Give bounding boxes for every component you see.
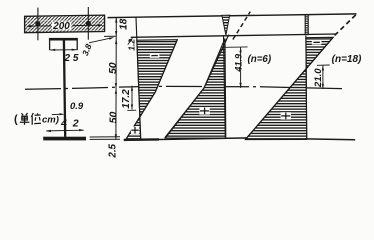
svg-text:41.9: 41.9 (234, 54, 244, 73)
leader 1.2 arrow (128, 39, 132, 45)
dimension 200 lines (28, 25, 51, 27)
dimension 21.0 (317, 64, 330, 66)
diagonal H2 (165, 35, 229, 138)
dimension 17.2 line (131, 86, 133, 110)
second line (131, 34, 335, 37)
tooth 1 lower (hatched) (126, 117, 141, 140)
kanji tan (20, 113, 30, 125)
leader 3.8 arrow (89, 38, 112, 43)
bottom line thick left part (124, 138, 159, 141)
tooth 3 upper (hatched) (306, 37, 333, 69)
svg-text:4 2: 4 2 (60, 117, 80, 129)
tooth 2 (hatched) (166, 39, 226, 139)
vertical V3 (305, 36, 308, 140)
dashed moment line 1 (233, 12, 250, 40)
tooth 3 lower (hatched) (245, 69, 306, 140)
tick under 18 (104, 35, 117, 37)
rivet 1 head (35, 21, 40, 26)
svg-text:cm): cm) (42, 115, 59, 126)
dimension 4.2 line (46, 129, 83, 132)
svg-text:(: ( (14, 114, 18, 126)
label 3.8 (rotated) (80, 42, 94, 57)
label 41.9 (rotated) (234, 54, 244, 73)
kanji i (31, 113, 41, 125)
web (64, 40, 65, 137)
label 2.5 (rotated) (107, 143, 118, 158)
tee right leg (76, 41, 78, 51)
diagonal H1 (126, 40, 178, 140)
flange plate (hatched, left cross-section) (25, 15, 105, 33)
svg-text:(n=18): (n=18) (332, 54, 362, 65)
label 1.2 (rotated) (126, 39, 136, 51)
dimension 41.9 (225, 46, 248, 48)
vertical V1 (136, 18, 141, 140)
label 50 lower (rotated) (108, 112, 120, 124)
svg-text:18: 18 (119, 18, 130, 30)
top flange tee bar (49, 38, 78, 41)
bottom flange bar (43, 137, 86, 141)
rivet 1 shank (37, 8, 39, 41)
label 50 upper (rotated) (107, 62, 119, 74)
minus sign tooth 1 (150, 53, 160, 58)
svg-text:(n=6): (n=6) (247, 54, 271, 65)
bottom flange continuation lower line (90, 138, 120, 140)
rivet 2 head (86, 21, 91, 26)
tooth 2 top wedge (hatched) (222, 15, 230, 35)
centre line (dash-dot) (25, 86, 342, 89)
tooth 1 upper (hatched) (137, 40, 178, 117)
svg-text:50: 50 (107, 62, 119, 74)
svg-text:21.0: 21.0 (313, 68, 324, 88)
top line (108, 14, 357, 18)
svg-text:50: 50 (108, 112, 120, 124)
label 21.0 (rotated) (313, 68, 324, 88)
svg-text:200: 200 (52, 21, 70, 32)
ladder bar top of tooth 3 (304, 15, 310, 36)
plus sign tooth 3 (281, 112, 291, 119)
left dimension chain line (115, 18, 117, 140)
label 17.2 (rotated) (121, 89, 132, 109)
rivet 2 shank (87, 7, 89, 40)
label 200 (52, 22, 71, 30)
vertical V2 (224, 35, 226, 138)
svg-text:2 5: 2 5 (64, 53, 79, 64)
bottom flange continuation upper line (90, 136, 120, 138)
diagonal H3 (245, 37, 333, 140)
bottom line of teeth (124, 138, 355, 140)
label 18 (rotated) (119, 18, 130, 30)
leader 0.9 arrow (52, 113, 63, 115)
plus sign tooth 1 (131, 127, 139, 134)
svg-text:0.9: 0.9 (70, 101, 84, 112)
minus sign tooth 3 (312, 40, 322, 45)
plus sign tooth 2 (199, 107, 209, 114)
svg-text:2.5: 2.5 (107, 143, 118, 158)
dimension 25 line (50, 49, 76, 51)
dashed moment line 2 (335, 14, 357, 36)
svg-text:17.2: 17.2 (121, 89, 132, 109)
tee left leg (49, 41, 51, 51)
